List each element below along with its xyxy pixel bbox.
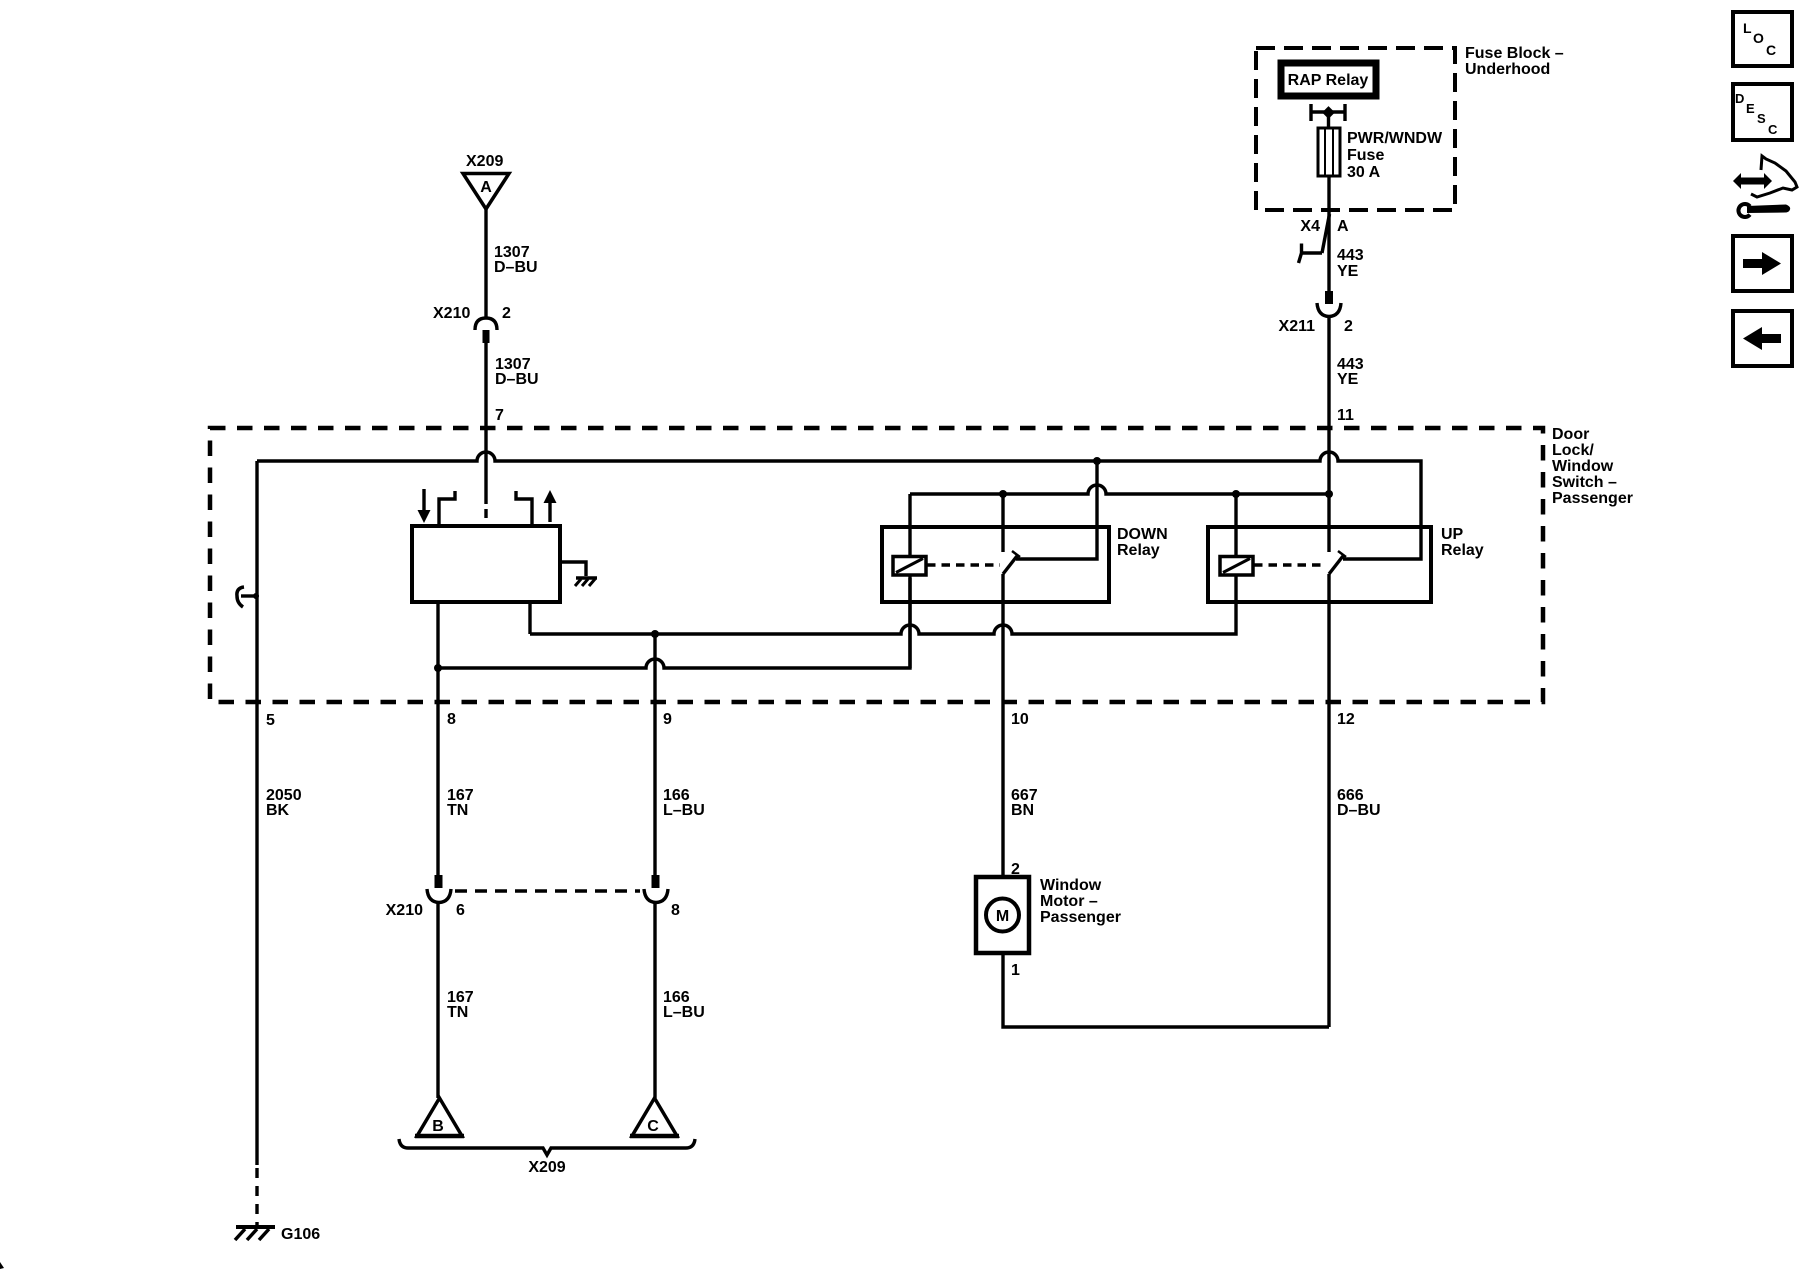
svg-text:DOWN: DOWN	[1117, 526, 1168, 543]
svg-text:B: B	[432, 1118, 444, 1135]
svg-text:PWR/WNDW: PWR/WNDW	[1347, 130, 1443, 147]
svg-text:12: 12	[1337, 711, 1355, 728]
junction node (pin8 wire / cross wire B)	[434, 664, 442, 672]
DOWN relay box	[882, 527, 1109, 602]
svg-text:X210: X210	[433, 305, 470, 322]
ground bus wire (pin5 to UP relay NO contact) with hops	[257, 452, 1421, 559]
svg-text:Window: Window	[1552, 458, 1614, 475]
svg-text:11: 11	[1337, 407, 1354, 424]
DOWN relay coil bottom wire	[908, 575, 911, 668]
svg-text:Window: Window	[1040, 877, 1102, 894]
svg-text:TN: TN	[447, 802, 468, 819]
UP relay coil	[1220, 557, 1253, 576]
connector X209 triangle C	[630, 1098, 679, 1136]
svg-text:RAP Relay: RAP Relay	[1288, 72, 1369, 89]
svg-text:X210: X210	[386, 902, 423, 919]
inline connector hook at left wire	[237, 587, 259, 607]
svg-text:D: D	[1735, 91, 1744, 106]
X209 brace	[399, 1139, 695, 1155]
switch actuator dash	[484, 509, 487, 518]
svg-text:D–BU: D–BU	[494, 259, 538, 276]
svg-text:X211: X211	[1279, 318, 1316, 335]
wire 1307 D-BU lower	[484, 343, 487, 504]
svg-text:1: 1	[1011, 962, 1020, 979]
connector X210 pin 8 (lower right)	[644, 875, 668, 903]
svg-text:X209: X209	[466, 153, 503, 170]
UP relay common wire (out to pin 12)	[1327, 574, 1330, 1027]
UP relay coil top wire	[1234, 494, 1237, 557]
switch contact pin (right, up)	[516, 491, 532, 526]
motor return wire	[1003, 953, 1329, 1027]
power bus wire (y=494) with hop	[910, 485, 1329, 494]
svg-text:Passenger: Passenger	[1040, 909, 1121, 926]
svg-text:YE: YE	[1337, 263, 1359, 280]
RAP relay socket bracket	[1311, 104, 1345, 121]
sidebar LOC box	[1733, 12, 1792, 66]
svg-text:Motor –: Motor –	[1040, 893, 1098, 910]
sidebar tools icon	[1733, 156, 1797, 219]
connector X211 pin 2 (inline)	[1317, 291, 1341, 317]
svg-text:8: 8	[671, 902, 680, 919]
window motor circle M	[986, 899, 1019, 932]
wire A (switch to UP relay coil) with hops	[530, 575, 1236, 634]
dashed ground lead	[255, 1168, 258, 1226]
connector X210 pin 2 (inline, upper)	[475, 318, 497, 343]
svg-text:BN: BN	[1011, 802, 1034, 819]
svg-text:Underhood: Underhood	[1465, 61, 1550, 78]
UP relay common wire (in)	[1327, 494, 1330, 552]
fuse block underhood dashed box	[1256, 48, 1455, 210]
switch ground stub	[560, 562, 586, 576]
dashed connector link X210	[455, 889, 640, 892]
connector X209 triangle B	[415, 1098, 464, 1136]
svg-text:UP: UP	[1441, 526, 1464, 543]
fuse PWR/WNDW 30A	[1318, 128, 1340, 176]
sidebar back arrow box	[1733, 311, 1792, 366]
wire fuse to X4	[1327, 176, 1330, 211]
svg-text:443: 443	[1337, 247, 1364, 264]
svg-text:C: C	[1766, 42, 1776, 58]
up arrow	[544, 490, 557, 522]
svg-text:8: 8	[447, 711, 456, 728]
svg-text:Fuse Block –: Fuse Block –	[1465, 45, 1564, 62]
RAP Relay box	[1281, 63, 1376, 96]
left ground wire (pin 5)	[255, 461, 258, 1165]
svg-text:L: L	[1743, 20, 1752, 36]
svg-text:6: 6	[456, 902, 465, 919]
svg-text:BK: BK	[266, 802, 290, 819]
DOWN relay coil top wire	[908, 494, 911, 557]
door lock/window switch passenger dashed box	[210, 428, 1543, 702]
svg-text:X209: X209	[528, 1159, 565, 1176]
DOWN relay coil	[893, 557, 926, 576]
DOWN relay contact arm	[1003, 551, 1020, 574]
wire 166 L-BU lower	[653, 902, 656, 1098]
svg-text:9: 9	[663, 711, 672, 728]
svg-text:2: 2	[1344, 318, 1353, 335]
svg-text:M: M	[996, 908, 1009, 925]
wire 443 YE lower	[1327, 316, 1330, 494]
UP relay box	[1208, 527, 1431, 602]
svg-text:5: 5	[266, 712, 275, 729]
svg-text:A: A	[480, 179, 492, 196]
switch output wire to wire A	[528, 602, 531, 634]
junction node (ground bus / DOWN relay NO)	[1093, 457, 1101, 465]
switch contact pin (left, down)	[439, 491, 455, 526]
svg-text:O: O	[1753, 30, 1764, 46]
switch box (window switch)	[412, 526, 560, 602]
DOWN relay common wire (out to pin 10)	[1001, 574, 1004, 877]
UP relay coil dashed link	[1254, 563, 1326, 566]
svg-text:C: C	[647, 1118, 659, 1135]
svg-text:X4: X4	[1300, 218, 1320, 235]
junction node (power bus / DOWN common)	[999, 490, 1007, 498]
sidebar forward arrow box	[1733, 236, 1792, 291]
svg-text:D–BU: D–BU	[495, 371, 539, 388]
svg-text:TN: TN	[447, 1004, 468, 1021]
svg-text:D–BU: D–BU	[1337, 802, 1381, 819]
svg-text:10: 10	[1011, 711, 1029, 728]
connector X210 pin 6 (lower left)	[427, 875, 451, 903]
svg-text:30 A: 30 A	[1347, 164, 1381, 181]
svg-text:Fuse: Fuse	[1347, 147, 1384, 164]
svg-text:A: A	[1337, 218, 1349, 235]
sidebar DESC box	[1733, 84, 1792, 140]
svg-text:Door: Door	[1552, 426, 1589, 443]
junction node (power bus / UP coil)	[1232, 490, 1240, 498]
svg-text:Relay: Relay	[1117, 542, 1160, 559]
svg-text:2: 2	[502, 305, 511, 322]
junction node (wire A / pin 9)	[651, 630, 659, 638]
DOWN relay coil dashed link	[927, 563, 1000, 566]
connector X4 terminal A (kink and hook)	[1299, 211, 1330, 291]
wire 1307 D-BU upper	[484, 209, 487, 317]
UP relay contact arm	[1329, 551, 1346, 574]
chassis ground symbol (switch)	[575, 578, 597, 586]
svg-text:S: S	[1757, 111, 1766, 126]
connector X209 triangle A	[463, 174, 509, 210]
svg-text:C: C	[1768, 122, 1778, 137]
down arrow	[418, 489, 431, 523]
wire relay to fuse	[1327, 112, 1330, 128]
wire DOWN relay NO vertical	[1016, 461, 1097, 559]
stray mark bottom-left corner	[0, 1262, 4, 1269]
svg-text:Passenger: Passenger	[1552, 490, 1633, 507]
ground G106 symbol	[235, 1227, 275, 1240]
svg-text:Relay: Relay	[1441, 542, 1484, 559]
svg-text:YE: YE	[1337, 371, 1359, 388]
svg-text:G106: G106	[281, 1226, 320, 1243]
wire pin 9 vertical	[653, 634, 656, 875]
svg-text:Switch –: Switch –	[1552, 474, 1617, 491]
window motor box	[976, 877, 1029, 953]
svg-text:7: 7	[495, 407, 504, 424]
junction node (power bus / 443 YE feed)	[1325, 490, 1333, 498]
switch output wire pin 8 (upper)	[436, 602, 439, 875]
DOWN relay common wire (in)	[1001, 494, 1004, 552]
svg-text:L–BU: L–BU	[663, 1004, 705, 1021]
wire 167 TN lower	[436, 902, 439, 1098]
svg-text:L–BU: L–BU	[663, 802, 705, 819]
svg-text:E: E	[1746, 101, 1755, 116]
svg-text:Lock/: Lock/	[1552, 442, 1594, 459]
wire B (pin8 junction to DOWN relay coil) with hop	[438, 578, 910, 668]
